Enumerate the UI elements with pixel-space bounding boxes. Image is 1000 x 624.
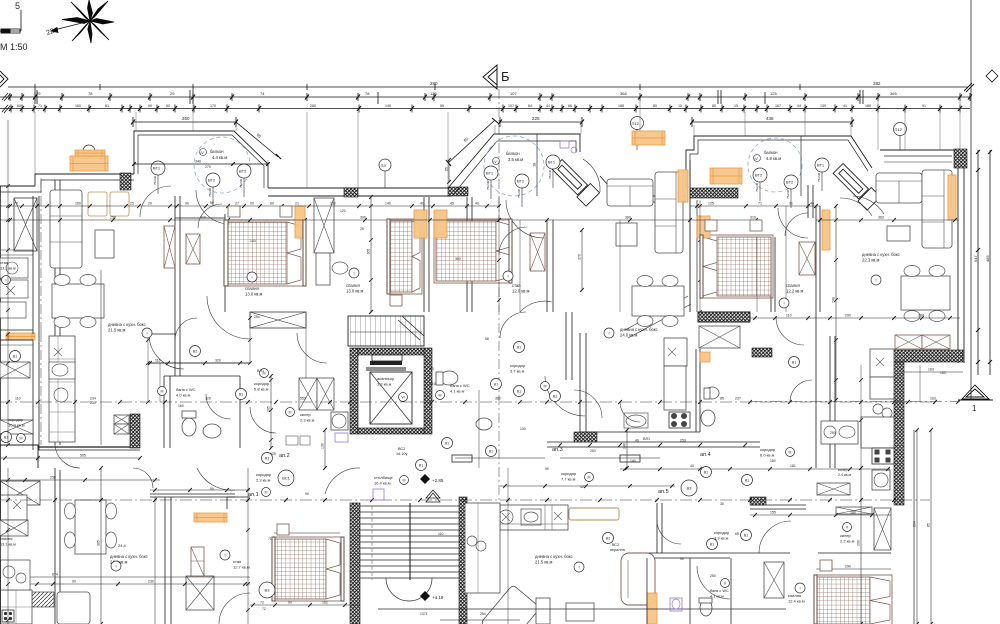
svg-text:28: 28 [533,163,537,167]
wall room x547 inner [552,220,554,312]
dim chain y318 right [750,317,960,319]
circle B1 c1r [236,389,247,400]
svg-text:B3: B3 [265,456,269,460]
vertical dim 664 [916,430,918,624]
svg-text:427: 427 [580,485,586,489]
wall y497 d1right [227,496,250,498]
circle living1 I [142,328,152,338]
desk bedroom2 [316,253,330,285]
svg-text:коридор: коридор [8,417,24,422]
svg-text:547: 547 [973,255,978,262]
entrance assembly 2 rotated [832,161,881,210]
svg-text:B2: B2 [193,349,197,353]
circle bathd3 II [721,579,730,588]
svg-text:B3: B3 [687,485,693,490]
svg-text:B1: B1 [517,345,521,349]
stair up arrow [426,493,440,502]
svg-text:B2: B2 [606,536,610,540]
hatch block d2 kitchen [467,511,485,525]
wardrobe d1 tan [191,547,204,576]
svg-text:13.0 кв.м: 13.0 кв.м [346,289,364,294]
svg-text:22.3 кв.м: 22.3 кв.м [862,258,880,263]
svg-text:110: 110 [15,397,21,401]
svg-text:75/230: 75/230 [786,189,790,199]
left edge kitchen blocks neighbour apartment [0,258,28,278]
wall x657 d3 [656,503,658,553]
kitchen d1 top [0,495,27,520]
svg-text:91: 91 [922,104,926,108]
svg-text:25: 25 [130,202,134,206]
stair break diagonals [625,296,691,338]
circle bath2 III [436,391,445,400]
circle bedroom7 I [779,298,789,308]
svg-text:160: 160 [178,404,184,408]
svg-text:553: 553 [300,397,306,401]
cabinet c4 a [895,335,922,349]
circle d2 BC1 [278,470,294,486]
svg-text:ВГ2: ВГ2 [208,178,216,183]
svg-text:130: 130 [520,427,526,431]
wall x813 [812,185,814,218]
svg-text:ап.3: ап.3 [552,447,563,453]
wall y432 mid [580,431,700,433]
window marker ВГ3 [237,164,251,178]
stair direction arrow [426,490,440,498]
circle living6 I [871,275,881,285]
svg-text:ВГ2: ВГ2 [786,180,794,185]
svg-text:III: III [161,389,164,393]
svg-text:ВГ1: ВГ1 [486,171,494,176]
svg-text:4.1 кв.м: 4.1 кв.м [450,389,465,394]
svg-text:250: 250 [830,431,836,435]
svg-text:12.2 кв.м: 12.2 кв.м [786,289,804,294]
svg-text:ВС1: ВС1 [282,475,290,480]
svg-text:59: 59 [440,104,444,108]
kitchen d3 [500,505,568,530]
svg-text:107: 107 [508,104,514,108]
svg-text:164: 164 [918,314,924,318]
svg-text:365: 365 [97,540,101,546]
door arc d3 bath [697,566,730,599]
circle d4 II [843,523,852,532]
vertical dim x155 lower [154,497,156,624]
wall x700b [699,349,701,432]
svg-text:15: 15 [734,104,738,108]
window box left wall [14,198,37,251]
svg-text:310: 310 [200,216,206,220]
nightstands [228,206,240,217]
svg-text:баня с WC: баня с WC [450,383,470,388]
svg-text:дневна с кухн. бокс: дневна с кухн. бокс [535,554,573,559]
circle d3r B1c [486,446,497,457]
svg-text:30: 30 [720,502,724,506]
svg-text:140: 140 [385,202,391,206]
wall bedroom1 bottom [175,217,225,219]
orange highlight bench balcony3 highlight [710,168,742,184]
kitchen c4 [870,349,894,377]
svg-text:75/230: 75/230 [817,172,821,182]
svg-text:44: 44 [797,104,801,108]
svg-text:180: 180 [850,511,856,515]
wall y448 left thick [38,446,140,448]
svg-text:163: 163 [930,397,936,401]
coffee table living5 [616,223,637,246]
wardrobe d1 right [186,576,214,610]
svg-text:III: III [20,436,23,440]
bay window 3 outline [686,136,872,188]
bed bedroom4 [701,235,773,298]
svg-text:90: 90 [72,580,76,584]
svg-text:4.4 кв.м: 4.4 кв.м [212,155,227,160]
extra chain segment y490 d1 ticks [153,488,157,492]
svg-text:B2: B2 [553,394,557,398]
wall pier hatch mid [344,188,358,197]
entrance 2 door arc [853,196,884,214]
toilet bath2 [440,371,458,385]
window marker ВГ1 [151,161,165,175]
svg-text:4.8 кв.м: 4.8 кв.м [766,156,781,161]
circle core III [260,369,269,378]
wall x662 d3 [661,503,663,553]
svg-text:75/230: 75/230 [755,182,759,192]
svg-text:40: 40 [635,439,639,443]
stairwell lower hatch walls [350,503,360,624]
svg-text:125: 125 [770,91,777,96]
П12 circle 2 [894,123,907,136]
door arc balcony3 [778,208,808,238]
wall bedroom1 left [224,214,226,312]
cabinet top c2 [250,312,306,328]
window marker ВГ2 [515,174,529,188]
svg-text:340: 340 [195,160,201,164]
wall y550 bath d3 [647,557,730,559]
svg-text:2.3 кв.м: 2.3 кв.м [256,478,271,483]
wall left apartment [54,180,56,624]
svg-text:B1: B1 [445,441,449,445]
svg-text:258: 258 [110,216,116,220]
circle corridor1 III [17,434,26,443]
svg-text:90: 90 [545,467,549,471]
chain B cluster vertical bars [35,90,863,104]
svg-text:90: 90 [680,557,684,561]
svg-text:балкон: балкон [764,150,778,155]
svg-text:ап.4: ап.4 [700,452,711,458]
svg-text:485: 485 [985,255,990,262]
window marker ВГ2 [753,168,767,182]
door arc d1 right [219,593,250,624]
circle d1 I [111,561,121,571]
svg-text:1371: 1371 [420,612,428,616]
bath d3 enclosure walls [689,558,691,624]
svg-text:290: 290 [857,540,861,546]
svg-text:320: 320 [205,397,211,401]
svg-text:баня с WC: баня с WC [710,589,729,593]
door arc d3 left [520,301,552,312]
dining table living5 [632,286,684,316]
dimension chain A top [8,83,974,92]
orange highlight door bar e [697,216,710,238]
svg-text:163: 163 [928,368,934,372]
svg-text:B1: B1 [744,533,748,537]
entrance 1 door arc [583,159,600,192]
kitchen c3 [664,338,687,366]
sink bath2 [476,418,492,430]
circle c3 B2 [550,391,561,402]
svg-text:спалня: спалня [788,593,801,598]
svg-text:12.0 кв.м: 12.0 кв.м [512,289,530,294]
circle d3r B1b [741,530,752,541]
svg-text:13.0 кв.м: 13.0 кв.м [245,292,263,297]
thin wall x101 upper [100,270,102,445]
orange highlight small orange c3 [700,352,710,362]
svg-text:664: 664 [913,521,917,527]
hatch block d4 left [750,497,766,505]
main axis dash-dot y402 [0,401,935,403]
dimension chain B [0,93,972,101]
wall bath mid x240 [239,376,241,448]
svg-text:80: 80 [712,104,716,108]
orange highlight sofa top-left highlight [70,156,108,171]
wall bedroom2 right [423,197,425,312]
circle c2 B3 [532,294,534,296]
sink c1 [49,362,75,379]
bottom corridor wall [378,608,786,610]
svg-text:пералня: пералня [610,548,625,552]
door arc bedroom1 [140,186,171,217]
sofa livingroom1 vertical [50,190,82,268]
svg-text:368: 368 [620,91,627,96]
wall y494 lower [150,493,235,495]
corridor wall vertical x690 [689,160,691,312]
circle d2 B1b [442,438,453,449]
svg-text:ПЗ: ПЗ [381,163,387,168]
svg-text:75/230: 75/230 [486,180,490,190]
svg-text:90: 90 [305,492,309,496]
elevator cab [370,372,412,424]
svg-text:189: 189 [865,104,871,108]
svg-text:60: 60 [166,104,170,108]
level mark +4.19 [420,591,430,601]
svg-text:75/230: 75/230 [517,188,521,198]
svg-text:260: 260 [310,104,316,108]
svg-text:81: 81 [105,104,109,108]
orange highlight bench balcony2 highlight [632,131,665,145]
sink bath1 [203,424,221,438]
bay3 mullion [800,136,802,196]
svg-text:253: 253 [680,439,686,443]
vertical dim 85 [930,430,932,624]
svg-text:163: 163 [940,371,946,375]
wardrobe core a [299,378,317,410]
svg-text:B1: B1 [4,435,8,439]
orange highlight sofa top-left small [75,150,105,156]
svg-text:44: 44 [546,104,550,108]
dimension chain C [0,105,970,113]
wall bay2 to corridor [600,176,614,202]
svg-text:90: 90 [288,601,292,605]
svg-text:спалня: спалня [346,283,360,288]
lower-left window X boxes [0,520,28,536]
circle d1r I [220,550,230,560]
door arc b4 [785,213,808,236]
svg-text:B1: B1 [710,542,714,546]
armchairs livingroom1 [88,192,107,216]
bed bedroom2 vertical [387,219,422,294]
wardrobe d4 b [836,507,872,514]
axis marker Б [483,65,497,89]
sofa d1 bottom [57,592,90,624]
dim d4 y569 [816,568,891,570]
svg-text:290: 290 [845,314,851,318]
upper corridor extra openings arcs [620,402,640,422]
cabinet c4 b [922,335,950,349]
svg-text:21.5 кв.м: 21.5 кв.м [535,560,553,565]
circle elevator VI [399,393,408,402]
dim y372 right [904,371,963,373]
wardrobe bedroom2 [314,198,334,253]
svg-text:234: 234 [90,401,96,405]
wall bath mid x170 [169,376,171,448]
elevator door sill [370,361,402,365]
svg-text:21.5 кв.м: 21.5 кв.м [108,328,126,333]
chain y468 right [620,468,890,470]
stair upper flight [348,316,424,346]
svg-text:балкон: балкон [506,151,520,156]
svg-text:5.8 кв.м: 5.8 кв.м [254,387,269,392]
svg-text:160: 160 [75,104,81,108]
svg-text:41: 41 [843,104,847,108]
svg-text:438: 438 [766,116,774,121]
svg-text:коридор: коридор [760,447,776,452]
svg-text:60: 60 [17,104,21,108]
svg-text:72: 72 [260,601,264,605]
svg-text:3.3 кв.м: 3.3 кв.м [714,536,729,541]
svg-text:320: 320 [215,359,221,363]
door arc balcony1 [196,190,230,224]
svg-text:21: 21 [295,202,299,206]
wardrobe room4 [530,233,545,271]
svg-text:40: 40 [420,202,424,206]
bed bedroom3 [434,219,512,283]
wall y497 lower [150,496,235,498]
П12 circle 1 [631,117,644,130]
orange highlight door bar b [414,210,427,238]
svg-text:дневна с кухн. бокс: дневна с кухн. бокс [862,252,900,257]
svg-text:спалня: спалня [245,286,259,291]
svg-text:I: I [578,564,579,569]
svg-text:253: 253 [590,449,596,453]
wall pier hatch bay2 left [448,187,468,196]
svg-text:I: I [608,330,609,335]
svg-text:балкон: балкон [210,149,224,154]
wall x580 inner [585,333,587,432]
circle B1 left [10,351,21,362]
svg-text:58: 58 [485,337,489,341]
wall x775 [774,237,776,312]
svg-text:спалня: спалня [786,283,800,288]
svg-text:75/230: 75/230 [153,175,157,185]
svg-text:155: 155 [770,511,776,515]
svg-text:3.5 кв.м: 3.5 кв.м [508,157,523,162]
svg-text:ВГ2: ВГ2 [755,173,763,178]
svg-text:4.1 кв.м: 4.1 кв.м [710,594,724,598]
wall x566 lower [565,312,567,380]
svg-text:16.4 кв.м: 16.4 кв.м [374,481,391,486]
svg-text:III: III [289,410,292,414]
svg-text:дневна с кухн. бокс: дневна с кухн. бокс [110,554,148,559]
svg-text:143: 143 [250,239,256,243]
chain y605 extra ticks right [440,619,520,621]
window boxes bottom-left wall [0,420,33,434]
wall x171 lower [170,497,172,624]
vertical dims mid lower [507,468,509,624]
door arc b1 lowright [207,296,250,339]
window line top right wall [884,161,952,163]
wall y553 d3 [647,552,790,554]
svg-text:162: 162 [322,601,328,605]
sofa d3 corner [481,585,541,624]
wall y509 [750,508,806,510]
svg-text:360: 360 [625,216,631,220]
svg-text:баня с WC: баня с WC [176,387,196,392]
svg-text:ВГ1: ВГ1 [817,163,825,168]
svg-text:стая: стая [0,261,8,265]
wall x808 [807,185,809,218]
sink bath3 [701,410,715,426]
svg-text:20: 20 [148,202,152,206]
svg-text:I: I [783,300,784,305]
svg-text:B1: B1 [239,392,243,396]
orange highlight door bar f [822,210,830,250]
purple fixtures [335,433,348,442]
wall bath top y376 [164,375,240,377]
svg-text:B1: B1 [494,382,498,386]
wall bedroom right x771 [770,237,772,312]
door arc room1b [198,204,222,228]
dim seg y363 [148,362,250,364]
door arc corelow [250,407,276,433]
circle living5 I [604,328,614,338]
washer core [331,412,348,430]
elevator shaft walls [350,348,358,434]
wall x700 lower [695,349,697,432]
svg-text:110: 110 [786,314,792,318]
top wall right section [880,150,958,363]
svg-text:40: 40 [475,202,479,206]
svg-text:360: 360 [495,397,501,401]
svg-text:3.7 кв.м: 3.7 кв.м [510,369,525,374]
svg-text:12.7 кв.м: 12.7 кв.м [233,565,250,570]
circle d2 III [262,488,271,497]
balcony dashed circle 3 [748,138,802,192]
svg-text:III: III [789,450,792,454]
kitchen c1 counter [49,336,75,442]
svg-text:асансьор: асансьор [377,376,395,381]
wall bath mid x164 [163,376,165,448]
svg-text:110: 110 [438,532,444,536]
svg-text:90: 90 [250,202,254,206]
svg-text:B1: B1 [517,389,521,393]
svg-text:ап.5: ап.5 [658,489,669,495]
door arc entry1 [149,334,184,369]
ap2 small fixtures [286,436,298,445]
wall y312 hatch outline [698,312,750,322]
svg-text:237: 237 [735,397,741,401]
svg-text:85: 85 [927,523,931,527]
wardrobe d4 d [764,562,784,598]
svg-text:140: 140 [385,104,391,108]
wall bedroom3 right [466,197,468,312]
